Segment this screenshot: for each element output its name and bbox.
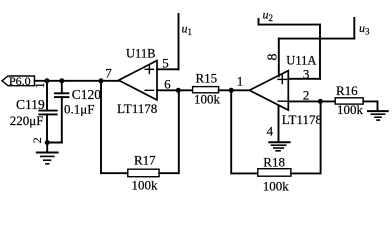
wire u2 horizontal xyxy=(259,24,321,26)
svg-text:0.1μF: 0.1μF xyxy=(64,101,94,116)
svg-text:U11B: U11B xyxy=(126,46,155,60)
wire R18 right leg xyxy=(291,101,321,173)
svg-text:LT1178: LT1178 xyxy=(282,112,322,127)
wire pin 5 stub xyxy=(157,68,179,70)
node junction R18 tap xyxy=(229,88,234,93)
node junction feedback xyxy=(99,78,104,83)
svg-text:1: 1 xyxy=(237,74,244,89)
op-amp U11A minus input mark xyxy=(278,100,286,102)
svg-text:1: 1 xyxy=(33,82,47,88)
svg-text:3: 3 xyxy=(303,66,310,81)
svg-text:8: 8 xyxy=(266,54,281,61)
wire u2 tick xyxy=(258,19,260,25)
ground GND3 xyxy=(368,111,388,120)
op-amp U11B triangle xyxy=(119,61,157,101)
wire R17 right leg xyxy=(159,90,179,173)
wire pin 2 to R16 xyxy=(288,100,335,102)
wire u1 riser xyxy=(178,14,180,69)
svg-text:220μF: 220μF xyxy=(10,113,44,128)
wire pin 6 to R15 xyxy=(157,89,193,91)
svg-text:100k: 100k xyxy=(263,178,290,193)
node junction pin2/R18 xyxy=(318,99,323,104)
ground GND1 xyxy=(37,143,58,164)
svg-text:4: 4 xyxy=(267,124,274,139)
svg-text:2: 2 xyxy=(303,88,310,103)
wire R17 left leg xyxy=(101,81,128,173)
svg-text:R17: R17 xyxy=(134,152,156,167)
node junction C119 xyxy=(45,78,50,83)
op-amp U11A triangle xyxy=(249,71,288,111)
capacitor C119 xyxy=(39,81,56,143)
resistor R17 xyxy=(128,169,159,177)
wire cap bottom join xyxy=(47,142,62,144)
resistor R16 xyxy=(335,98,363,104)
svg-text:C120: C120 xyxy=(72,87,102,102)
port P6.0 xyxy=(2,76,35,86)
wire R16 to ground xyxy=(363,101,377,111)
svg-text:u2: u2 xyxy=(263,8,274,24)
wire R18 left leg xyxy=(231,90,258,173)
svg-text:P6.0: P6.0 xyxy=(9,74,31,88)
wire u2 riser xyxy=(319,25,321,79)
svg-text:u1: u1 xyxy=(182,22,193,38)
node junction C120 xyxy=(59,78,64,83)
svg-text:LT1178: LT1178 xyxy=(117,101,157,116)
node junction ground xyxy=(45,140,50,145)
svg-text:7: 7 xyxy=(105,66,112,81)
wire pin 4 drop xyxy=(278,105,280,142)
svg-text:2: 2 xyxy=(30,137,44,143)
svg-text:u3: u3 xyxy=(359,21,370,37)
svg-text:R15: R15 xyxy=(196,71,218,86)
svg-text:100k: 100k xyxy=(337,102,364,117)
wire pin 8 riser xyxy=(278,39,280,77)
op-amp U11A plus input mark xyxy=(278,75,286,83)
wire pin 3 stub xyxy=(288,78,320,80)
wire R15 to U11A xyxy=(219,89,250,91)
ground GND2 xyxy=(269,142,289,151)
svg-text:R18: R18 xyxy=(263,154,285,169)
svg-text:100k: 100k xyxy=(194,91,221,106)
node junction pin6/R17 xyxy=(176,88,181,93)
svg-text:6: 6 xyxy=(164,76,171,91)
svg-text:5: 5 xyxy=(162,55,169,70)
wire u3 horizontal xyxy=(279,38,355,40)
svg-text:100k: 100k xyxy=(132,178,159,193)
wire u3 tick xyxy=(353,18,355,39)
svg-text:R16: R16 xyxy=(336,83,358,98)
resistor R15 xyxy=(193,87,219,93)
svg-text:C119: C119 xyxy=(16,97,45,112)
capacitor C120 xyxy=(55,81,69,143)
svg-text:U11A: U11A xyxy=(286,54,316,68)
resistor R18 xyxy=(258,169,291,177)
wire main input net xyxy=(35,80,119,82)
op-amp U11B minus input mark xyxy=(145,89,153,91)
op-amp U11B plus input mark xyxy=(145,65,153,73)
